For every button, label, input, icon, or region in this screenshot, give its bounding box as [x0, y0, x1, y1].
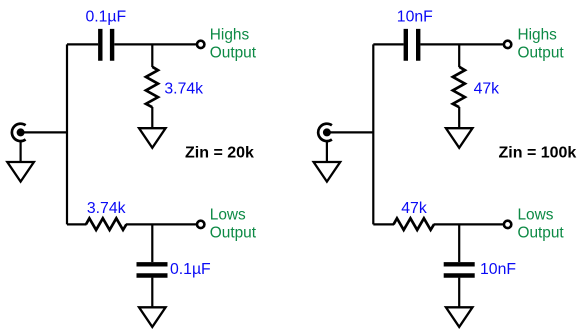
resistor R2 (horizontal) — [86, 218, 126, 230]
svg-text:47k: 47k — [401, 200, 427, 217]
wire main vertical right — [372, 44, 374, 224]
wire input to main vertical — [21, 131, 67, 133]
ground (C4) — [446, 307, 473, 327]
wire junction to capacitor C4 — [458, 224, 460, 262]
wire top branch right — [420, 43, 504, 45]
input connector J2 center dot — [323, 128, 331, 136]
svg-text:Lows: Lows — [518, 207, 554, 224]
svg-text:3.74k: 3.74k — [164, 81, 203, 98]
wire top branch left — [67, 43, 98, 45]
ground (R1) — [139, 128, 166, 148]
svg-text:Output: Output — [210, 45, 257, 62]
wire top branch left — [373, 43, 403, 45]
wire lows branch right — [126, 223, 197, 225]
wire C2 to ground — [151, 278, 153, 308]
lows output terminal — [197, 221, 204, 228]
wire R1 to ground — [151, 107, 153, 129]
svg-text:3.74k: 3.74k — [87, 200, 126, 217]
capacitor C2 — [137, 264, 168, 275]
ground (C2) — [139, 307, 166, 327]
wire C4 to ground — [458, 278, 460, 308]
ground (input J2) — [314, 162, 341, 182]
highs output terminal right — [504, 41, 511, 48]
highs output terminal — [197, 41, 204, 48]
ground (input) — [7, 162, 34, 182]
input connector J1 (arc) — [12, 124, 26, 141]
wire input to ground — [20, 142, 22, 163]
capacitor C1 — [100, 29, 112, 61]
wire junction to capacitor C2 — [151, 224, 153, 262]
resistor R4 (horizontal) — [394, 218, 434, 230]
input connector J2 (arc) — [318, 124, 332, 141]
wire lows branch left — [67, 223, 87, 225]
ground (R3) — [446, 128, 473, 148]
wire lows branch right — [434, 223, 504, 225]
svg-text:10nF: 10nF — [480, 261, 516, 278]
svg-text:Output: Output — [518, 45, 565, 62]
wire junction to resistor R3 — [458, 44, 460, 67]
svg-text:0.1µF: 0.1µF — [170, 261, 211, 278]
svg-text:Highs: Highs — [518, 27, 558, 44]
svg-text:10nF: 10nF — [397, 8, 433, 25]
svg-text:Zin = 100k: Zin = 100k — [499, 145, 577, 162]
wire top branch right — [114, 43, 197, 45]
resistor R1 (vertical) — [146, 67, 158, 107]
svg-text:Lows: Lows — [210, 207, 246, 224]
wire R3 to ground — [458, 107, 460, 129]
svg-text:Zin = 20k: Zin = 20k — [185, 145, 254, 162]
capacitor C3 — [406, 29, 418, 61]
wire input to main vertical — [327, 131, 373, 133]
wire main vertical — [66, 44, 68, 224]
svg-text:Output: Output — [518, 225, 565, 242]
svg-text:Highs: Highs — [210, 27, 250, 44]
svg-text:Output: Output — [210, 225, 257, 242]
wire junction to resistor R1 — [151, 44, 153, 67]
capacitor C4 — [444, 264, 475, 275]
svg-text:47k: 47k — [474, 81, 500, 98]
svg-text:0.1µF: 0.1µF — [85, 8, 126, 25]
wire lows branch left right circuit — [373, 223, 394, 225]
input connector J1 center dot — [17, 128, 25, 136]
lows output terminal right — [504, 221, 511, 228]
resistor R3 (vertical) — [453, 67, 465, 107]
wire input to ground — [326, 142, 328, 163]
